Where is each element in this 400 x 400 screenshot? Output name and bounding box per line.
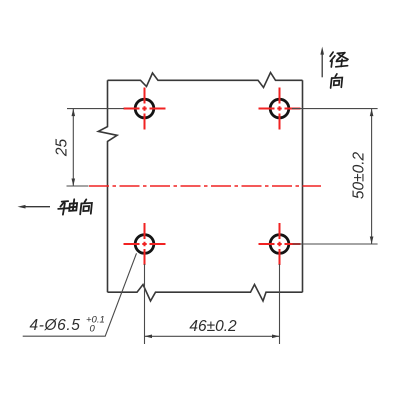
- part outline left edge with break line: [98, 80, 117, 292]
- svg-text:25: 25: [53, 139, 70, 158]
- leader line for hole callout: [23, 253, 137, 336]
- dimension 50±0.2 arrows: [370, 109, 374, 244]
- hole H2 top-right circle: [270, 99, 289, 118]
- svg-text:0: 0: [90, 323, 96, 334]
- dimension 46±0.2 arrows: [145, 335, 280, 339]
- part outline top edge with break lines: [108, 73, 303, 88]
- dimension 50±0.2 extension lines: [292, 109, 378, 244]
- hole H1 center mark: [124, 88, 166, 130]
- 轴 char: [58, 199, 77, 214]
- dimension 25 extension lines: [67, 109, 125, 186]
- svg-text:50±0.2: 50±0.2: [351, 151, 368, 199]
- hole H4 center mark: [259, 223, 301, 265]
- part outline right edge: [302, 80, 304, 292]
- 向 char: [331, 74, 343, 88]
- dimension 46±0.2 dimension line: [145, 335, 280, 337]
- hole H4 bottom-right circle: [270, 235, 289, 254]
- dimension 25 arrows: [72, 109, 76, 186]
- radial direction label 径向 (hand-drawn strokes): [330, 52, 348, 88]
- part outline bottom edge with break lines: [108, 285, 303, 302]
- hole H1 top-left circle: [135, 99, 154, 118]
- dimension 50±0.2 dimension line: [371, 109, 373, 244]
- 径 char: [330, 52, 348, 67]
- dimension 25 dimension line: [72, 109, 74, 186]
- hole H3 center mark: [124, 223, 166, 265]
- 向 char: [80, 199, 92, 214]
- hole H3 bottom-left circle: [135, 235, 154, 254]
- hole H2 center mark: [259, 88, 301, 130]
- svg-text:46±0.2: 46±0.2: [189, 318, 237, 335]
- radial direction arrow: [320, 47, 324, 78]
- axial direction arrow: [18, 205, 51, 209]
- axial direction label 轴向 (hand-drawn strokes): [58, 199, 92, 214]
- dimension 46±0.2 extension lines: [145, 264, 280, 344]
- red part centerline: [89, 185, 321, 187]
- hole callout label 4-Ø6.5 +0.1/0: [30, 315, 105, 335]
- svg-text:4-Ø6.5: 4-Ø6.5: [30, 317, 81, 334]
